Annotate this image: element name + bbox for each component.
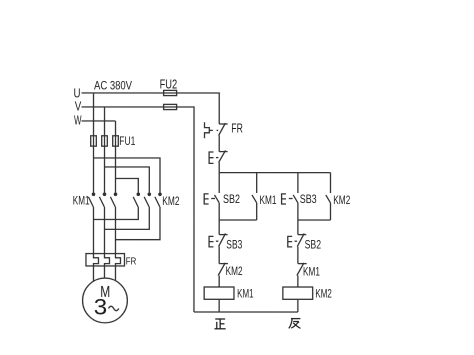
- svg-text:KM2: KM2: [333, 193, 350, 207]
- svg-text:FR: FR: [231, 121, 243, 135]
- svg-text:FU1: FU1: [119, 134, 135, 148]
- svg-text:FR: FR: [126, 255, 137, 267]
- svg-text:V: V: [75, 98, 82, 113]
- svg-text:KM1: KM1: [237, 286, 254, 300]
- svg-text:KM1: KM1: [259, 193, 276, 207]
- svg-text:SB2: SB2: [305, 238, 322, 252]
- svg-text:3: 3: [94, 295, 108, 320]
- svg-text:W: W: [74, 112, 82, 127]
- svg-text:AC 380V: AC 380V: [94, 81, 132, 93]
- svg-text:KM1: KM1: [303, 264, 320, 278]
- svg-text:KM2: KM2: [162, 194, 179, 208]
- svg-text:KM2: KM2: [315, 286, 332, 300]
- svg-text:SB3: SB3: [300, 192, 317, 206]
- svg-text:SB2: SB2: [223, 192, 240, 206]
- svg-text:SB3: SB3: [226, 238, 242, 252]
- svg-text:KM1: KM1: [73, 193, 90, 207]
- svg-text:FU2: FU2: [160, 77, 178, 91]
- svg-text:KM2: KM2: [226, 264, 243, 278]
